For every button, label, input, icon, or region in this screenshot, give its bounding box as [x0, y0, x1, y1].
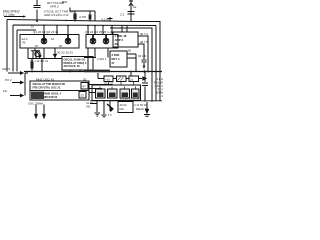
coil box T1b	[108, 89, 118, 98]
arrow down A	[35, 105, 38, 119]
svg-text:4.7W: 4.7W	[79, 15, 86, 19]
wire drops into U3	[122, 26, 127, 32]
wire U6 right stubs	[89, 85, 112, 93]
label above bottom bus	[120, 97, 140, 101]
svg-text:APR.2: APR.2	[50, 4, 59, 8]
svg-text:1K: 1K	[35, 44, 39, 48]
label under mid rail	[30, 59, 49, 63]
wire feedback loop 2	[13, 25, 156, 101]
text rows in U4	[112, 53, 120, 65]
svg-text:2K: 2K	[59, 44, 63, 48]
capacitor C4 right column	[142, 72, 148, 101]
label above U2	[85, 30, 112, 34]
resistor R3 vertical	[31, 59, 33, 72]
text row2 in U6	[33, 92, 62, 100]
wire input arrow	[4, 16, 25, 18]
svg-text:B22: B22	[62, 0, 68, 4]
capacitor C3 on antenna lead	[128, 12, 135, 15]
svg-text:Q3 24 Q4 25 26 1-4: Q3 24 Q4 25 26 1-4	[85, 30, 112, 34]
svg-text:15: 15	[31, 25, 35, 29]
wire bias rail y11	[70, 11, 95, 21]
wire riser x42	[41, 59, 43, 72]
svg-text:4.1 W: 4.1 W	[101, 18, 109, 22]
wire loop3 right branch	[110, 28, 152, 101]
svg-text:1 5: 1 5	[108, 113, 112, 117]
value text under U1	[57, 51, 73, 55]
text row1 in U6	[33, 82, 65, 90]
svg-text:AM OSCIL 30: AM OSCIL 30	[64, 64, 81, 68]
svg-text:4 301 1: 4 301 1	[97, 57, 107, 61]
wire U4 right stubs	[127, 54, 136, 72]
divider in U6	[30, 90, 89, 92]
text rows in U3	[115, 34, 127, 46]
svg-text:CRYS: CRYS	[2, 67, 10, 71]
svg-text:PU 2: PU 2	[5, 78, 12, 82]
meter block M1 box	[118, 102, 133, 113]
arrow down right	[146, 102, 149, 113]
svg-text:FRE CRYSTAL OSC 31: FRE CRYSTAL OSC 31	[33, 86, 61, 90]
dark cell row2 left	[31, 92, 44, 100]
label above tank box	[36, 77, 87, 81]
transistor Q4	[103, 38, 109, 44]
note text second row	[44, 10, 74, 17]
diode D1 blob	[107, 104, 113, 109]
svg-text:FIL: FIL	[3, 89, 8, 93]
coil box T1d	[132, 89, 140, 98]
note text top-center	[47, 1, 64, 8]
junction dots rail y21	[65, 20, 132, 23]
label under U6	[28, 102, 43, 106]
svg-text:30.3 32: 30.3 32	[104, 81, 114, 85]
capacitor C5 right column upper	[142, 46, 147, 66]
junction dots mid rail	[32, 57, 56, 59]
wire lower rail segment	[98, 78, 142, 80]
svg-text:MA: MA	[120, 107, 124, 111]
capacitor C2 small	[108, 17, 113, 22]
oscillator tank block U6 box	[30, 81, 89, 100]
ground G2	[102, 115, 107, 117]
transistor Q2	[65, 38, 71, 44]
wire feedback loop 1 left vertical	[6, 20, 8, 72]
wire mid horizontal y58	[28, 48, 96, 59]
IF block U3 box right	[113, 32, 138, 47]
wire riser x70	[69, 8, 71, 12]
text rows in U5	[64, 58, 87, 69]
ground G3	[144, 115, 150, 117]
right margin note stack	[154, 77, 164, 98]
antenna A1	[129, 0, 133, 22]
svg-text:2.2: 2.2	[159, 94, 163, 98]
junction dots on bus	[31, 70, 149, 73]
arrow down B	[43, 105, 46, 119]
transistor Q5 under U1	[31, 48, 41, 59]
oscillator block U5 box	[62, 57, 93, 71]
svg-text:2.2: 2.2	[120, 13, 125, 17]
transistor Q3	[90, 38, 96, 44]
svg-text:27: 27	[112, 61, 116, 65]
value box row2	[79, 92, 86, 99]
wire loop1 top-right corner	[136, 22, 160, 101]
label FIL arrow	[3, 89, 8, 93]
svg-text:60: 60	[128, 49, 132, 53]
svg-text:2 4 30 32 40 55: 2 4 30 32 40 55	[120, 97, 140, 101]
stub labels	[140, 32, 148, 44]
wire drops from U2	[88, 48, 108, 71]
svg-text:7B: 7B	[22, 41, 26, 45]
label under bottom bus	[134, 103, 149, 111]
label above U1	[33, 30, 59, 34]
label CRYS arrow	[2, 67, 10, 71]
coil top pins	[100, 82, 136, 90]
svg-text:2x: 2x	[130, 78, 134, 82]
wire main top horizontal	[7, 20, 136, 22]
svg-text:Q1 22 10 Q2 23 11: Q1 22 10 Q2 23 11	[33, 30, 59, 34]
value box row1	[81, 83, 88, 90]
label above bias rail	[62, 0, 68, 4]
resistor R5 box on lower rail	[117, 76, 127, 82]
detector block U4 box	[110, 51, 127, 67]
wire drops into U2	[88, 26, 112, 35]
junction dots rail y26	[43, 25, 113, 27]
label PU2 arrow	[5, 78, 12, 82]
capacitor C1 on riser	[34, 0, 41, 22]
resistor R4 box on lower rail	[104, 76, 113, 82]
wire emitter drop	[36, 48, 44, 59]
svg-text:2a: 2a	[133, 5, 137, 9]
label left of drops	[86, 101, 93, 109]
node label mid	[97, 57, 107, 61]
wire drops under T1	[97, 101, 110, 115]
svg-text:30.32 30.33: 30.32 30.33	[57, 51, 73, 55]
svg-text:10: 10	[51, 37, 55, 41]
stub label	[138, 54, 146, 58]
wire stub left	[90, 103, 97, 105]
value text in U1	[22, 37, 63, 48]
label right of U6	[104, 81, 114, 85]
resistor R2 vertical	[74, 11, 76, 22]
wire riser x90	[89, 11, 91, 22]
svg-text:ADD.US APC-3 W: ADD.US APC-3 W	[44, 13, 69, 17]
wire U5 bottom stubs	[70, 70, 80, 72]
svg-text:49 1-6: 49 1-6	[138, 54, 146, 58]
svg-text:48.7 B: 48.7 B	[140, 40, 148, 44]
resistor R6 box on lower rail	[129, 76, 139, 82]
wire U3 right stubs	[138, 36, 148, 72]
wire left column riser	[25, 73, 28, 96]
wire main bus y72	[24, 71, 162, 73]
svg-text:33: 33	[80, 94, 84, 98]
svg-text:OSCILLAT TNK MODULTR: OSCILLAT TNK MODULTR	[33, 82, 65, 86]
wire bottom bus y101	[90, 100, 162, 102]
arrow node x55	[54, 48, 57, 57]
amplifier block U1 box	[20, 35, 79, 49]
wire riser x131 lower	[98, 72, 131, 79]
node IN label top-left	[3, 10, 20, 17]
mixer block U2 box	[86, 35, 118, 49]
wire feedback loop 3	[17, 30, 36, 72]
svg-text:48.7 A: 48.7 A	[140, 32, 148, 36]
svg-text:2W: 2W	[86, 105, 91, 109]
svg-text:47: 47	[82, 85, 86, 89]
wire drops into U1	[44, 25, 68, 34]
transistor Q1	[41, 38, 47, 44]
coil box T1c	[120, 89, 130, 98]
svg-text:26: 26	[115, 42, 119, 46]
coil blobs in boxes	[97, 93, 138, 98]
junction dots bottom bus	[144, 100, 153, 102]
ground G1	[95, 113, 101, 116]
coil box T1a	[96, 89, 106, 98]
wire bus thick segment	[84, 70, 110, 73]
arrow on lower rail	[143, 77, 146, 80]
transformer block T1 outer box	[92, 85, 141, 101]
